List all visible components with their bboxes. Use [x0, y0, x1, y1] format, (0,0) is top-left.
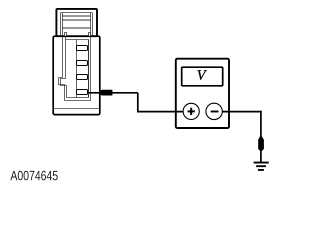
minus sign — [211, 111, 219, 113]
housing top cap — [66, 39, 89, 41]
probe at connector pin 4 — [98, 90, 113, 96]
wire: minus terminal to right corner — [222, 111, 262, 113]
voltmeter box — [176, 59, 229, 128]
wire: down to ground probe — [260, 111, 262, 138]
voltmeter display — [182, 67, 223, 86]
wire: probe to corner — [89, 92, 138, 94]
connector tab latch lines — [63, 16, 91, 28]
connector base line — [54, 108, 99, 110]
tab stub right — [89, 33, 91, 37]
tab stub left — [65, 33, 67, 37]
housing bottom outer — [65, 100, 91, 102]
pin slot 3 — [77, 75, 88, 80]
connector tab inner rect — [61, 13, 93, 37]
wire: probe to ground — [260, 150, 262, 162]
terminal spine — [76, 40, 78, 98]
pin slot 2 — [77, 61, 88, 66]
figure number caption — [10, 171, 57, 181]
connector body — [53, 36, 100, 114]
ground probe — [258, 136, 264, 151]
connector tab outer — [56, 9, 97, 36]
wire: corner down — [137, 93, 139, 112]
wire: to plus terminal — [137, 111, 183, 113]
ground symbol — [254, 163, 269, 170]
housing bottom inner — [67, 97, 89, 99]
minus terminal — [206, 103, 222, 119]
plus terminal — [183, 103, 199, 119]
housing right wall outer — [90, 36, 92, 100]
plus sign — [188, 108, 195, 115]
connector tab inner verticals — [63, 13, 91, 36]
housing right wall inner — [88, 40, 90, 98]
pin slot 4 — [77, 90, 88, 95]
pin slot 1 — [77, 46, 88, 51]
housing left wall with notch — [59, 36, 65, 100]
V label — [197, 70, 206, 80]
housing left wall inner with notch — [61, 36, 67, 97]
